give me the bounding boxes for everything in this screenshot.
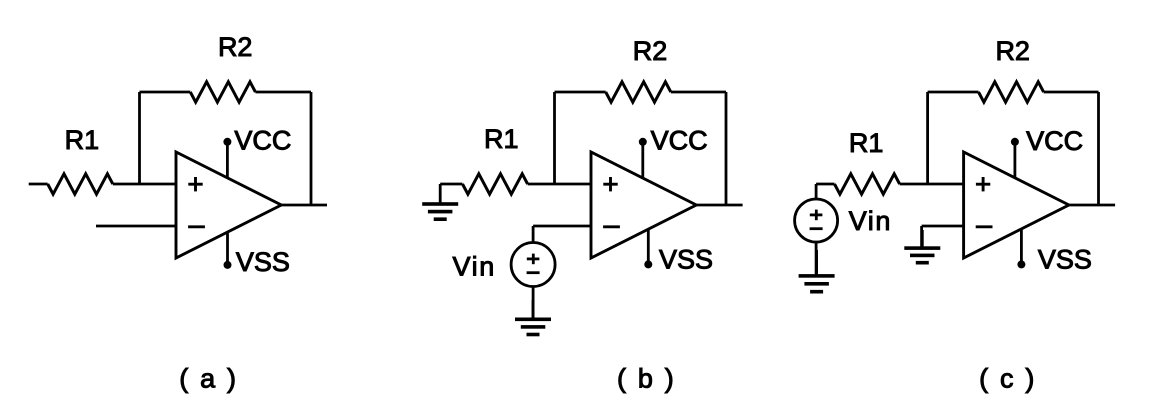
svg-text:Vin: Vin: [453, 251, 496, 281]
op-amp U3 (c): [964, 152, 1069, 258]
wire output (b): [697, 204, 743, 207]
op-amp U1 (a): [176, 152, 281, 258]
resistor R1 (b): [463, 174, 528, 194]
resistor R1 (c): [835, 174, 900, 194]
svg-text:( c ): ( c ): [979, 363, 1037, 393]
svg-text:R1: R1: [849, 128, 884, 158]
wire ground to R1 (b): [440, 183, 462, 186]
source Vin (c): [795, 199, 838, 242]
wire feedback left vertical (c): [926, 92, 929, 184]
ground below Vin (b): [515, 300, 551, 336]
wire input stub (a): [29, 183, 48, 186]
wire inverting input (c): [922, 225, 964, 228]
svg-text:Vin: Vin: [849, 206, 892, 236]
svg-text:VCC: VCC: [1026, 126, 1083, 156]
wire R1 to op-amp + input (c): [900, 183, 964, 186]
svg-text:VSS: VSS: [236, 247, 290, 277]
VSS pin (b): [644, 229, 652, 268]
VSS pin (c): [1017, 229, 1025, 269]
wire feedback left vertical (a): [138, 92, 141, 184]
svg-text:R2: R2: [633, 36, 668, 66]
wire R1 to op-amp + input (b): [528, 183, 591, 186]
ground at inverting input (c): [904, 230, 940, 265]
wire feedback right vertical (b): [725, 92, 728, 205]
resistor R2 (c): [979, 82, 1044, 102]
wire inverting input stub (a): [96, 225, 176, 228]
wire Vin corner to R1 (c): [816, 183, 834, 186]
VCC pin (b): [639, 138, 647, 178]
source Vin (b): [511, 243, 555, 287]
wire to Vin source (b): [532, 226, 535, 243]
wire feedback right vertical (c): [1097, 92, 1100, 205]
svg-text:VCC: VCC: [651, 126, 708, 156]
wire feedback left vertical (b): [553, 92, 556, 184]
wire R1 to op-amp + input (a): [113, 183, 176, 186]
VSS pin (a): [224, 232, 232, 269]
wire feedback top right (a): [255, 91, 311, 94]
wire output (a): [281, 204, 327, 207]
ground at R1 input (b): [422, 184, 458, 221]
wire feedback right vertical (a): [310, 92, 313, 205]
svg-text:R1: R1: [484, 124, 519, 154]
resistor R2 (a): [190, 82, 255, 102]
wire feedback top left (b): [555, 91, 606, 94]
wire feedback top left (a): [140, 91, 191, 94]
svg-text:VSS: VSS: [1038, 245, 1092, 275]
svg-text:R2: R2: [218, 32, 253, 62]
svg-text:R1: R1: [65, 125, 100, 155]
ground below Vin (c): [799, 250, 835, 294]
svg-text:( b ): ( b ): [617, 363, 676, 393]
op-amp U2 (b): [591, 152, 696, 258]
wire Vin to ground (c): [815, 242, 818, 276]
wire feedback top right (c): [1044, 91, 1099, 94]
svg-text:R2: R2: [995, 36, 1030, 66]
wire feedback top right (b): [671, 91, 726, 94]
resistor R2 (b): [606, 82, 671, 102]
VCC pin (c): [1011, 138, 1019, 178]
svg-text:( a ): ( a ): [179, 363, 238, 393]
wire to ground at inverting input (c): [920, 226, 923, 248]
wire Vin to ground (b): [532, 287, 535, 320]
svg-text:VCC: VCC: [234, 126, 291, 156]
svg-text:VSS: VSS: [659, 244, 713, 274]
wire feedback top left (c): [928, 91, 979, 94]
VCC pin (a): [223, 138, 231, 178]
wire output (c): [1069, 204, 1115, 207]
resistor R1 (a): [48, 174, 113, 194]
wire Vin to R1 (c): [815, 184, 818, 199]
wire inverting input (b): [533, 225, 591, 228]
